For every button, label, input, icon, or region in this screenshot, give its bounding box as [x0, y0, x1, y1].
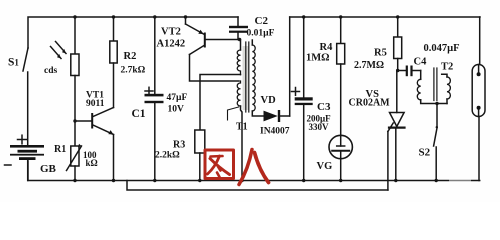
node R5 C4 VS junction	[396, 69, 399, 72]
wire top rail to tube	[479, 17, 481, 65]
wire gate trigger line	[127, 181, 388, 191]
svg-text:2.7MΩ: 2.7MΩ	[354, 60, 384, 71]
svg-text:R1: R1	[54, 144, 66, 155]
resistor R2	[112, 15, 115, 18]
node VT1 base	[73, 119, 76, 122]
resistor R1 variable	[71, 146, 79, 166]
wire diode output to top rail right	[289, 17, 291, 116]
wire top rail left	[28, 17, 238, 48]
wire cds top	[74, 17, 76, 54]
svg-text:A1242: A1242	[157, 39, 186, 50]
transformer T1 primary winding	[237, 81, 240, 106]
resistor R4	[339, 15, 342, 18]
transistor VT2	[184, 15, 187, 18]
svg-text:47µF: 47µF	[167, 93, 188, 103]
transformer T2 core	[433, 68, 435, 101]
node VT1 emitter bottom	[112, 179, 115, 182]
svg-text:kΩ: kΩ	[86, 158, 98, 168]
node cds top	[73, 15, 76, 18]
resistor R3	[195, 130, 205, 153]
svg-text:VT2: VT2	[161, 27, 181, 38]
svg-text:cds: cds	[44, 66, 58, 76]
svg-text:R3: R3	[173, 140, 185, 151]
wire top rail right	[290, 16, 480, 18]
wire T1 primary bottom elbow	[228, 107, 239, 120]
svg-text:VG: VG	[317, 161, 333, 172]
svg-text:C2: C2	[255, 15, 269, 27]
svg-text:T1: T1	[236, 122, 248, 133]
capacitor C2	[237, 17, 239, 26]
wire bottom rail	[28, 161, 480, 181]
node T2 S2 junction	[435, 102, 438, 105]
capacitor C3	[302, 15, 305, 18]
svg-text:GB: GB	[40, 163, 57, 175]
figure label red 八	[239, 150, 269, 185]
transformer T2 primary	[420, 71, 422, 80]
svg-text:R2: R2	[124, 51, 137, 62]
wire R5 to C4	[398, 70, 406, 72]
svg-text:C4: C4	[414, 57, 428, 68]
svg-text:1MΩ: 1MΩ	[306, 53, 330, 64]
wire feedback return	[200, 75, 241, 131]
capacitor C1	[153, 15, 156, 18]
svg-text:S1: S1	[8, 57, 19, 69]
svg-text:CR02AM: CR02AM	[349, 98, 391, 109]
capacitor C4	[406, 66, 408, 77]
transformer T2 secondary	[442, 74, 447, 77]
neon lamp VG	[329, 135, 352, 158]
transformer T1 feedback winding	[240, 40, 242, 51]
svg-text:R4: R4	[320, 42, 334, 53]
switch S1	[23, 48, 28, 71]
svg-text:S2: S2	[419, 147, 431, 159]
transformer T1 secondary winding	[251, 40, 253, 45]
wire cds to base node	[74, 76, 76, 147]
svg-text:0.047µF: 0.047µF	[424, 43, 460, 54]
figure label red box 图	[205, 150, 234, 179]
wire VT2 base	[206, 39, 241, 41]
svg-text:9011: 9011	[86, 99, 105, 109]
svg-text:C3: C3	[317, 101, 331, 113]
svg-text:R5: R5	[374, 48, 387, 59]
wire tube bottom to rail	[478, 117, 480, 181]
fluorescent tube lamp	[472, 65, 485, 117]
svg-text:330V: 330V	[309, 122, 330, 132]
node R1 bottom	[73, 179, 76, 182]
transformer T1 core	[245, 42, 247, 112]
svg-text:0.01µF: 0.01µF	[247, 29, 275, 39]
svg-text:C1: C1	[132, 108, 146, 120]
transformer T1 shading	[243, 46, 249, 110]
diode VD	[252, 111, 263, 116]
transistor VT1	[75, 120, 92, 122]
resistor R5	[396, 15, 399, 18]
svg-text:2.7kΩ: 2.7kΩ	[121, 66, 146, 76]
switch S2	[436, 104, 438, 128]
wire T1 primary bottom to rail	[241, 106, 243, 181]
svg-text:2.2kΩ: 2.2kΩ	[155, 151, 180, 161]
svg-text:10V: 10V	[168, 105, 185, 115]
thyristor VS	[396, 71, 398, 113]
wire VT1 emitter down	[113, 135, 115, 181]
node C2 base junction	[238, 38, 241, 41]
svg-text:VD: VD	[261, 95, 277, 106]
thyristor VS gate	[388, 123, 393, 132]
wire VT2 collector	[190, 46, 205, 55]
svg-text:T2: T2	[441, 62, 453, 73]
photoresistor cds	[71, 54, 79, 76]
battery GB	[10, 145, 44, 160]
svg-text:IN4007: IN4007	[260, 127, 290, 137]
